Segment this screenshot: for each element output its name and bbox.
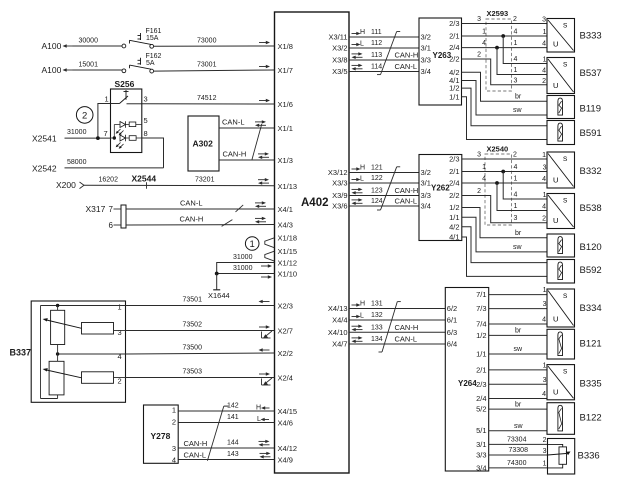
arrow into X1/12 — [261, 264, 272, 268]
svg-text:X2/3: X2/3 — [278, 302, 293, 311]
svg-text:X1/7: X1/7 — [278, 66, 293, 75]
pot2 top stub — [57, 354, 59, 361]
arrow H group1 — [352, 32, 361, 36]
arrows CAN-H group2 — [352, 188, 363, 195]
svg-text:2: 2 — [542, 78, 546, 85]
wire Y263 2/1 to B333 pin 1 — [462, 35, 548, 37]
svg-text:X1644: X1644 — [208, 291, 230, 300]
svg-text:Y262: Y262 — [431, 184, 450, 193]
wire LED2 to resistor — [126, 137, 130, 139]
svg-text:2/3: 2/3 — [449, 155, 459, 164]
wire wire to B592 pin 1 — [462, 227, 547, 263]
wire LED1 to resistor — [126, 124, 130, 126]
arrow at X4/15 — [261, 406, 270, 410]
arrow L group2 — [352, 178, 361, 182]
svg-text:X3/9: X3/9 — [332, 191, 347, 200]
connector bar X317 — [121, 205, 126, 228]
svg-text:7/1: 7/1 — [476, 290, 486, 299]
wire 142 — [178, 410, 274, 412]
svg-text:X2593: X2593 — [487, 9, 509, 18]
svg-text:U: U — [553, 315, 558, 324]
wire Y264 2/4 to B335 pin 4 — [489, 398, 547, 400]
svg-text:CAN-H: CAN-H — [395, 323, 419, 332]
wire 124 — [349, 205, 419, 207]
svg-text:H: H — [256, 405, 261, 412]
svg-text:113: 113 — [371, 52, 382, 59]
svg-text:1: 1 — [543, 362, 547, 369]
svg-text:114: 114 — [371, 64, 382, 71]
B337 pin4 internal wire — [58, 353, 126, 355]
svg-text:73308: 73308 — [509, 447, 529, 454]
sensor B334 — [547, 289, 575, 327]
wire 113 — [349, 59, 419, 61]
sensor B538 — [547, 194, 575, 229]
wire down to X1644 — [216, 274, 218, 290]
B337 top internal wire — [41, 305, 126, 307]
wire pin7 into box — [111, 137, 115, 139]
svg-text:X1/15: X1/15 — [278, 247, 298, 256]
wire 74512 — [142, 103, 275, 105]
wire 73304 — [489, 443, 548, 445]
wire 121 — [349, 172, 419, 174]
svg-text:B119: B119 — [580, 104, 601, 115]
arrow L group3 — [352, 315, 361, 319]
svg-text:31000: 31000 — [233, 265, 253, 272]
svg-text:3/1: 3/1 — [421, 179, 431, 188]
wire CAN-H from A302 — [219, 159, 275, 161]
wire Y264 7/3 to B334 pin 3 — [489, 308, 547, 310]
svg-text:124: 124 — [371, 198, 383, 205]
svg-text:sw: sw — [514, 346, 524, 353]
wire 133 — [349, 331, 445, 333]
wire 131 — [349, 308, 445, 310]
resistor R1 in B337 — [82, 323, 114, 335]
wire wire sw to B120 — [462, 217, 547, 252]
svg-text:CAN-H: CAN-H — [180, 215, 204, 224]
arrows at X4/3 — [255, 217, 266, 224]
svg-text:3: 3 — [543, 448, 547, 455]
svg-text:X2/4: X2/4 — [278, 374, 293, 383]
svg-text:8: 8 — [144, 129, 148, 138]
svg-text:X4/1: X4/1 — [278, 205, 293, 214]
wire 31000 X2541 — [65, 137, 111, 139]
svg-text:1/2: 1/2 — [449, 203, 459, 212]
svg-text:X4/10: X4/10 — [328, 328, 348, 337]
svg-text:2/4: 2/4 — [476, 394, 486, 403]
svg-text:73501: 73501 — [183, 297, 203, 304]
svg-text:2/3: 2/3 — [476, 380, 486, 389]
wire Y263 2/4 to B333 pin 4 — [462, 47, 548, 49]
svg-text:X3/2: X3/2 — [332, 44, 347, 53]
svg-text:U: U — [553, 387, 558, 396]
wire br to B122 — [489, 408, 547, 410]
svg-text:X4/3: X4/3 — [278, 221, 293, 230]
svg-text:1: 1 — [482, 29, 486, 36]
valve unit Y262 — [419, 155, 462, 241]
svg-text:1: 1 — [514, 40, 518, 47]
svg-text:B121: B121 — [580, 339, 602, 350]
svg-text:2: 2 — [82, 110, 87, 121]
module A302 — [188, 116, 219, 171]
note circle 1 — [245, 237, 259, 251]
arrows at X4/1 — [255, 201, 266, 208]
svg-text:15A: 15A — [146, 35, 159, 42]
resistor R2 in B337 — [82, 372, 114, 384]
R1 to pin 3 wire — [114, 330, 126, 332]
wiper arrow pot1 — [43, 318, 82, 328]
wire wire br to B120 — [462, 208, 547, 238]
svg-text:CAN-L: CAN-L — [395, 197, 418, 206]
svg-text:L: L — [360, 41, 364, 48]
svg-text:6/4: 6/4 — [447, 340, 457, 349]
arrows at X1/1 — [255, 120, 266, 127]
wire branch to B537 pin 4 — [497, 48, 547, 75]
svg-text:X4/15: X4/15 — [278, 407, 298, 416]
svg-text:1: 1 — [514, 176, 518, 183]
svg-text:58000: 58000 — [67, 159, 87, 166]
svg-text:1: 1 — [118, 303, 122, 312]
fuse F162 — [122, 58, 154, 73]
potentiometer track 2 in B337 — [49, 361, 64, 395]
svg-text:H: H — [360, 301, 365, 308]
svg-text:3/4: 3/4 — [476, 463, 486, 472]
wire 143 — [178, 459, 274, 461]
svg-text:4: 4 — [542, 204, 546, 211]
svg-text:2: 2 — [172, 418, 176, 427]
svg-text:B336: B336 — [578, 451, 600, 462]
svg-text:2/4: 2/4 — [449, 179, 459, 188]
svg-text:1: 1 — [172, 406, 176, 415]
svg-text:2: 2 — [513, 152, 517, 159]
wire Y264 7/4 to B334 pin 4 — [489, 323, 547, 325]
wire 134 — [349, 343, 445, 345]
twisted slash Y278 — [207, 406, 223, 461]
svg-text:L: L — [360, 313, 364, 320]
svg-text:134: 134 — [371, 336, 383, 343]
wire wire to B591 pin 1 — [462, 88, 548, 126]
svg-text:F162: F162 — [146, 53, 162, 60]
stub fishtail X1/15 — [265, 251, 275, 261]
svg-text:3: 3 — [477, 152, 481, 159]
wire 114 — [349, 71, 419, 73]
svg-text:S: S — [563, 197, 568, 204]
wire branch to B537 pin 1 — [503, 36, 547, 64]
switch contact of S256 — [111, 90, 142, 104]
svg-text:144: 144 — [227, 440, 239, 447]
svg-text:X3/3: X3/3 — [332, 179, 347, 188]
svg-text:H: H — [360, 165, 365, 172]
svg-text:142: 142 — [227, 403, 239, 410]
resistor in S256 branch 8 — [129, 136, 136, 141]
svg-text:73503: 73503 — [183, 369, 203, 376]
wire Y264 7/1 to B334 pin 1 — [489, 294, 547, 296]
svg-text:73001: 73001 — [197, 62, 217, 69]
wire S256 pin 1 to X2541 node — [98, 104, 111, 139]
svg-text:CAN-L: CAN-L — [395, 335, 418, 344]
svg-text:X1/8: X1/8 — [278, 42, 293, 51]
svg-text:1: 1 — [514, 203, 518, 210]
B337 left internal wire — [40, 306, 42, 399]
svg-text:74512: 74512 — [197, 95, 217, 102]
svg-text:X2/2: X2/2 — [278, 349, 293, 358]
wire 123 — [349, 195, 419, 197]
svg-text:3: 3 — [477, 16, 481, 23]
svg-text:CAN-L: CAN-L — [184, 451, 207, 460]
wire led branch feed — [114, 124, 120, 126]
svg-text:112: 112 — [371, 40, 382, 47]
wire wire sw to B119 — [462, 81, 548, 116]
svg-text:5: 5 — [144, 116, 148, 125]
svg-text:3: 3 — [543, 165, 547, 172]
svg-text:2/2: 2/2 — [449, 191, 459, 200]
svg-text:X200: X200 — [56, 180, 76, 190]
svg-text:1: 1 — [514, 67, 518, 74]
svg-text:CAN-L: CAN-L — [222, 118, 245, 127]
wire 144 — [178, 447, 274, 449]
svg-text:4: 4 — [542, 41, 546, 48]
svg-text:1/2: 1/2 — [449, 84, 459, 93]
svg-text:74300: 74300 — [507, 460, 527, 467]
wire CAN-L X317 — [126, 208, 275, 210]
stub fishtail X1/18 — [265, 238, 275, 248]
arrow into X2/4 — [259, 372, 270, 376]
junction junction X2540 row C — [495, 181, 499, 185]
svg-text:2/3: 2/3 — [449, 19, 459, 28]
heater B591 — [547, 121, 575, 145]
svg-text:133: 133 — [371, 324, 383, 331]
wire Y262 2/4 to B332 pin 4 — [462, 182, 547, 184]
svg-text:br: br — [515, 401, 522, 408]
junction junction X2593 row B — [501, 34, 505, 38]
svg-text:3/2: 3/2 — [421, 168, 431, 177]
arrows CAN-L group2 — [352, 198, 363, 205]
wire wire to B591 pin 2 — [462, 97, 548, 140]
connector tick X2544 — [146, 182, 148, 188]
svg-text:S: S — [563, 22, 568, 29]
wire Y264 2/1 to B335 pin 1 — [489, 369, 547, 371]
wire Y263 2/3 to B333 pin 3 — [462, 23, 548, 25]
wire pin6 stub — [114, 224, 122, 226]
heater B120 — [547, 234, 575, 257]
svg-text:1: 1 — [543, 461, 547, 468]
svg-text:3: 3 — [543, 301, 547, 308]
svg-text:7/4: 7/4 — [476, 320, 486, 329]
wire 31000 to X1/10 — [217, 273, 275, 275]
svg-text:73201: 73201 — [195, 177, 215, 184]
svg-text:73000: 73000 — [197, 38, 217, 45]
svg-text:5/1: 5/1 — [476, 426, 486, 435]
junction B337 node top — [56, 304, 59, 307]
pot2 bottom stub — [57, 395, 59, 399]
fuse F161 — [122, 33, 154, 48]
svg-text:F161: F161 — [146, 28, 162, 35]
svg-text:4: 4 — [118, 352, 122, 361]
svg-text:H: H — [360, 29, 365, 36]
svg-text:3/3: 3/3 — [476, 451, 486, 460]
svg-text:5/2: 5/2 — [476, 405, 486, 414]
bent arrow at X2/4 — [262, 378, 273, 385]
svg-text:1: 1 — [543, 29, 547, 36]
wire Y262 2/3 to B332 pin 1 — [462, 158, 547, 160]
wire CAN-L from A302 — [219, 127, 275, 129]
wire 132 — [349, 319, 445, 321]
wire sw to B122 — [489, 430, 547, 432]
wire br to B121 — [489, 334, 547, 336]
svg-text:X4/4: X4/4 — [332, 316, 347, 325]
svg-text:16202: 16202 — [99, 177, 119, 184]
svg-text:2/1: 2/1 — [476, 365, 486, 374]
svg-text:3: 3 — [514, 77, 518, 84]
svg-text:3/1: 3/1 — [421, 44, 431, 53]
svg-text:4: 4 — [514, 56, 518, 63]
svg-text:6/2: 6/2 — [447, 304, 457, 313]
svg-text:132: 132 — [371, 312, 383, 319]
svg-text:X3/6: X3/6 — [332, 202, 347, 211]
svg-text:B120: B120 — [580, 242, 602, 253]
svg-text:31000: 31000 — [233, 254, 253, 261]
wire branch to B538 pin 1 — [503, 172, 547, 200]
svg-text:3: 3 — [543, 377, 547, 384]
valve unit Y264 — [445, 288, 488, 472]
sensor B336 — [548, 439, 575, 475]
svg-text:3: 3 — [118, 328, 122, 337]
wire 73503 — [126, 377, 275, 379]
svg-text:1: 1 — [543, 287, 547, 294]
sensor B337 housing — [31, 301, 125, 402]
wire 73500 — [126, 353, 275, 354]
connector chevron X200 — [80, 182, 85, 189]
svg-text:X1/10: X1/10 — [278, 270, 298, 279]
potentiometer track 1 in B337 — [51, 310, 65, 344]
svg-text:br: br — [515, 230, 522, 237]
wire resistor to pin 5 — [136, 124, 142, 126]
arrows at X4/12 — [259, 440, 270, 447]
svg-text:S: S — [563, 293, 568, 300]
control unit A402 — [275, 12, 350, 473]
arrows CAN-L group3 — [352, 336, 363, 343]
wire 73502 — [126, 330, 275, 332]
svg-text:L: L — [360, 176, 364, 183]
svg-text:1: 1 — [482, 164, 486, 171]
wire 73308 — [489, 454, 548, 456]
svg-text:1/1: 1/1 — [449, 92, 459, 101]
svg-text:X1/3: X1/3 — [278, 156, 293, 165]
svg-text:br: br — [515, 328, 522, 335]
svg-text:1/2: 1/2 — [476, 331, 486, 340]
svg-text:111: 111 — [371, 29, 382, 36]
wire sw to B121 — [489, 353, 547, 355]
wire 16202/73201 — [84, 184, 275, 186]
svg-text:4: 4 — [482, 176, 486, 183]
heater B119 — [547, 96, 575, 119]
wire Y262 2/1 to B332 pin 3 — [462, 171, 547, 173]
svg-text:X317: X317 — [86, 204, 106, 214]
svg-text:B333: B333 — [580, 31, 602, 42]
svg-text:2: 2 — [477, 188, 481, 195]
svg-text:S256: S256 — [115, 79, 135, 89]
twisted slash group3 — [379, 302, 401, 352]
svg-text:CAN-H: CAN-H — [395, 186, 419, 195]
svg-text:73500: 73500 — [183, 345, 203, 352]
svg-text:3/3: 3/3 — [421, 191, 431, 200]
svg-text:U: U — [553, 216, 558, 225]
svg-text:31000: 31000 — [67, 129, 87, 136]
svg-text:L: L — [257, 416, 261, 423]
terminal bar X1644 — [213, 289, 220, 291]
svg-text:CAN-L: CAN-L — [395, 62, 418, 71]
svg-text:123: 123 — [371, 188, 383, 195]
arrow out of X2/3 — [259, 300, 270, 304]
wire pin7 stub — [114, 208, 122, 210]
svg-text:X1/12: X1/12 — [278, 259, 298, 268]
svg-text:4: 4 — [514, 29, 518, 36]
svg-text:1: 1 — [543, 57, 547, 64]
B337 bottom internal wire — [41, 398, 58, 400]
svg-text:1: 1 — [543, 192, 547, 199]
arrows CAN-L group1 — [352, 64, 363, 71]
connector X2593 dashed box — [486, 19, 512, 91]
sensor B332 — [547, 152, 575, 188]
svg-text:A402: A402 — [301, 197, 329, 209]
arrow into X1/6 — [259, 99, 270, 103]
svg-text:br: br — [515, 94, 522, 101]
svg-text:5A: 5A — [146, 60, 155, 67]
svg-text:7/3: 7/3 — [476, 304, 486, 313]
svg-text:X2544: X2544 — [132, 174, 157, 184]
svg-text:2/1: 2/1 — [449, 32, 459, 41]
junction S256 internal node — [113, 136, 116, 139]
note circle 2 — [76, 107, 93, 124]
svg-text:A100: A100 — [42, 41, 62, 51]
svg-text:3/2: 3/2 — [421, 33, 431, 42]
svg-text:3/4: 3/4 — [421, 67, 431, 76]
svg-text:4: 4 — [514, 192, 518, 199]
sensor B333 — [547, 19, 575, 53]
svg-text:4/1: 4/1 — [449, 233, 459, 242]
junction junction X2541/S256 pin1 — [96, 136, 100, 140]
wire resistor to pin 8 — [136, 137, 142, 139]
svg-text:30000: 30000 — [79, 38, 99, 45]
svg-text:2: 2 — [542, 216, 546, 223]
svg-text:X1/1: X1/1 — [278, 124, 293, 133]
junction B337 node mid — [56, 352, 59, 355]
svg-text:3: 3 — [542, 17, 546, 24]
svg-text:3: 3 — [144, 95, 148, 104]
svg-text:131: 131 — [371, 301, 383, 308]
svg-text:B334: B334 — [580, 303, 602, 314]
sensor B537 — [547, 58, 575, 94]
svg-text:4: 4 — [172, 456, 176, 465]
svg-text:1/1: 1/1 — [449, 213, 459, 222]
svg-text:B537: B537 — [580, 68, 602, 79]
svg-text:B122: B122 — [580, 413, 602, 424]
svg-text:sw: sw — [513, 107, 523, 114]
arrow into X2/7 — [259, 325, 270, 329]
svg-text:1: 1 — [105, 95, 109, 104]
wire wire to B592 pin 2 — [462, 237, 547, 276]
pot1 top stub — [57, 306, 59, 311]
switch S256 housing — [111, 89, 142, 153]
arrows at X4/9 — [260, 452, 271, 459]
svg-text:B538: B538 — [580, 203, 602, 214]
svg-text:A100: A100 — [42, 65, 62, 75]
arrow into X1/7 — [259, 65, 270, 69]
svg-text:X3/11: X3/11 — [328, 33, 347, 42]
arrows CAN-H group1 — [352, 52, 363, 59]
svg-text:1/1: 1/1 — [476, 350, 486, 359]
wire 141 — [178, 422, 274, 424]
svg-text:2: 2 — [513, 16, 517, 23]
